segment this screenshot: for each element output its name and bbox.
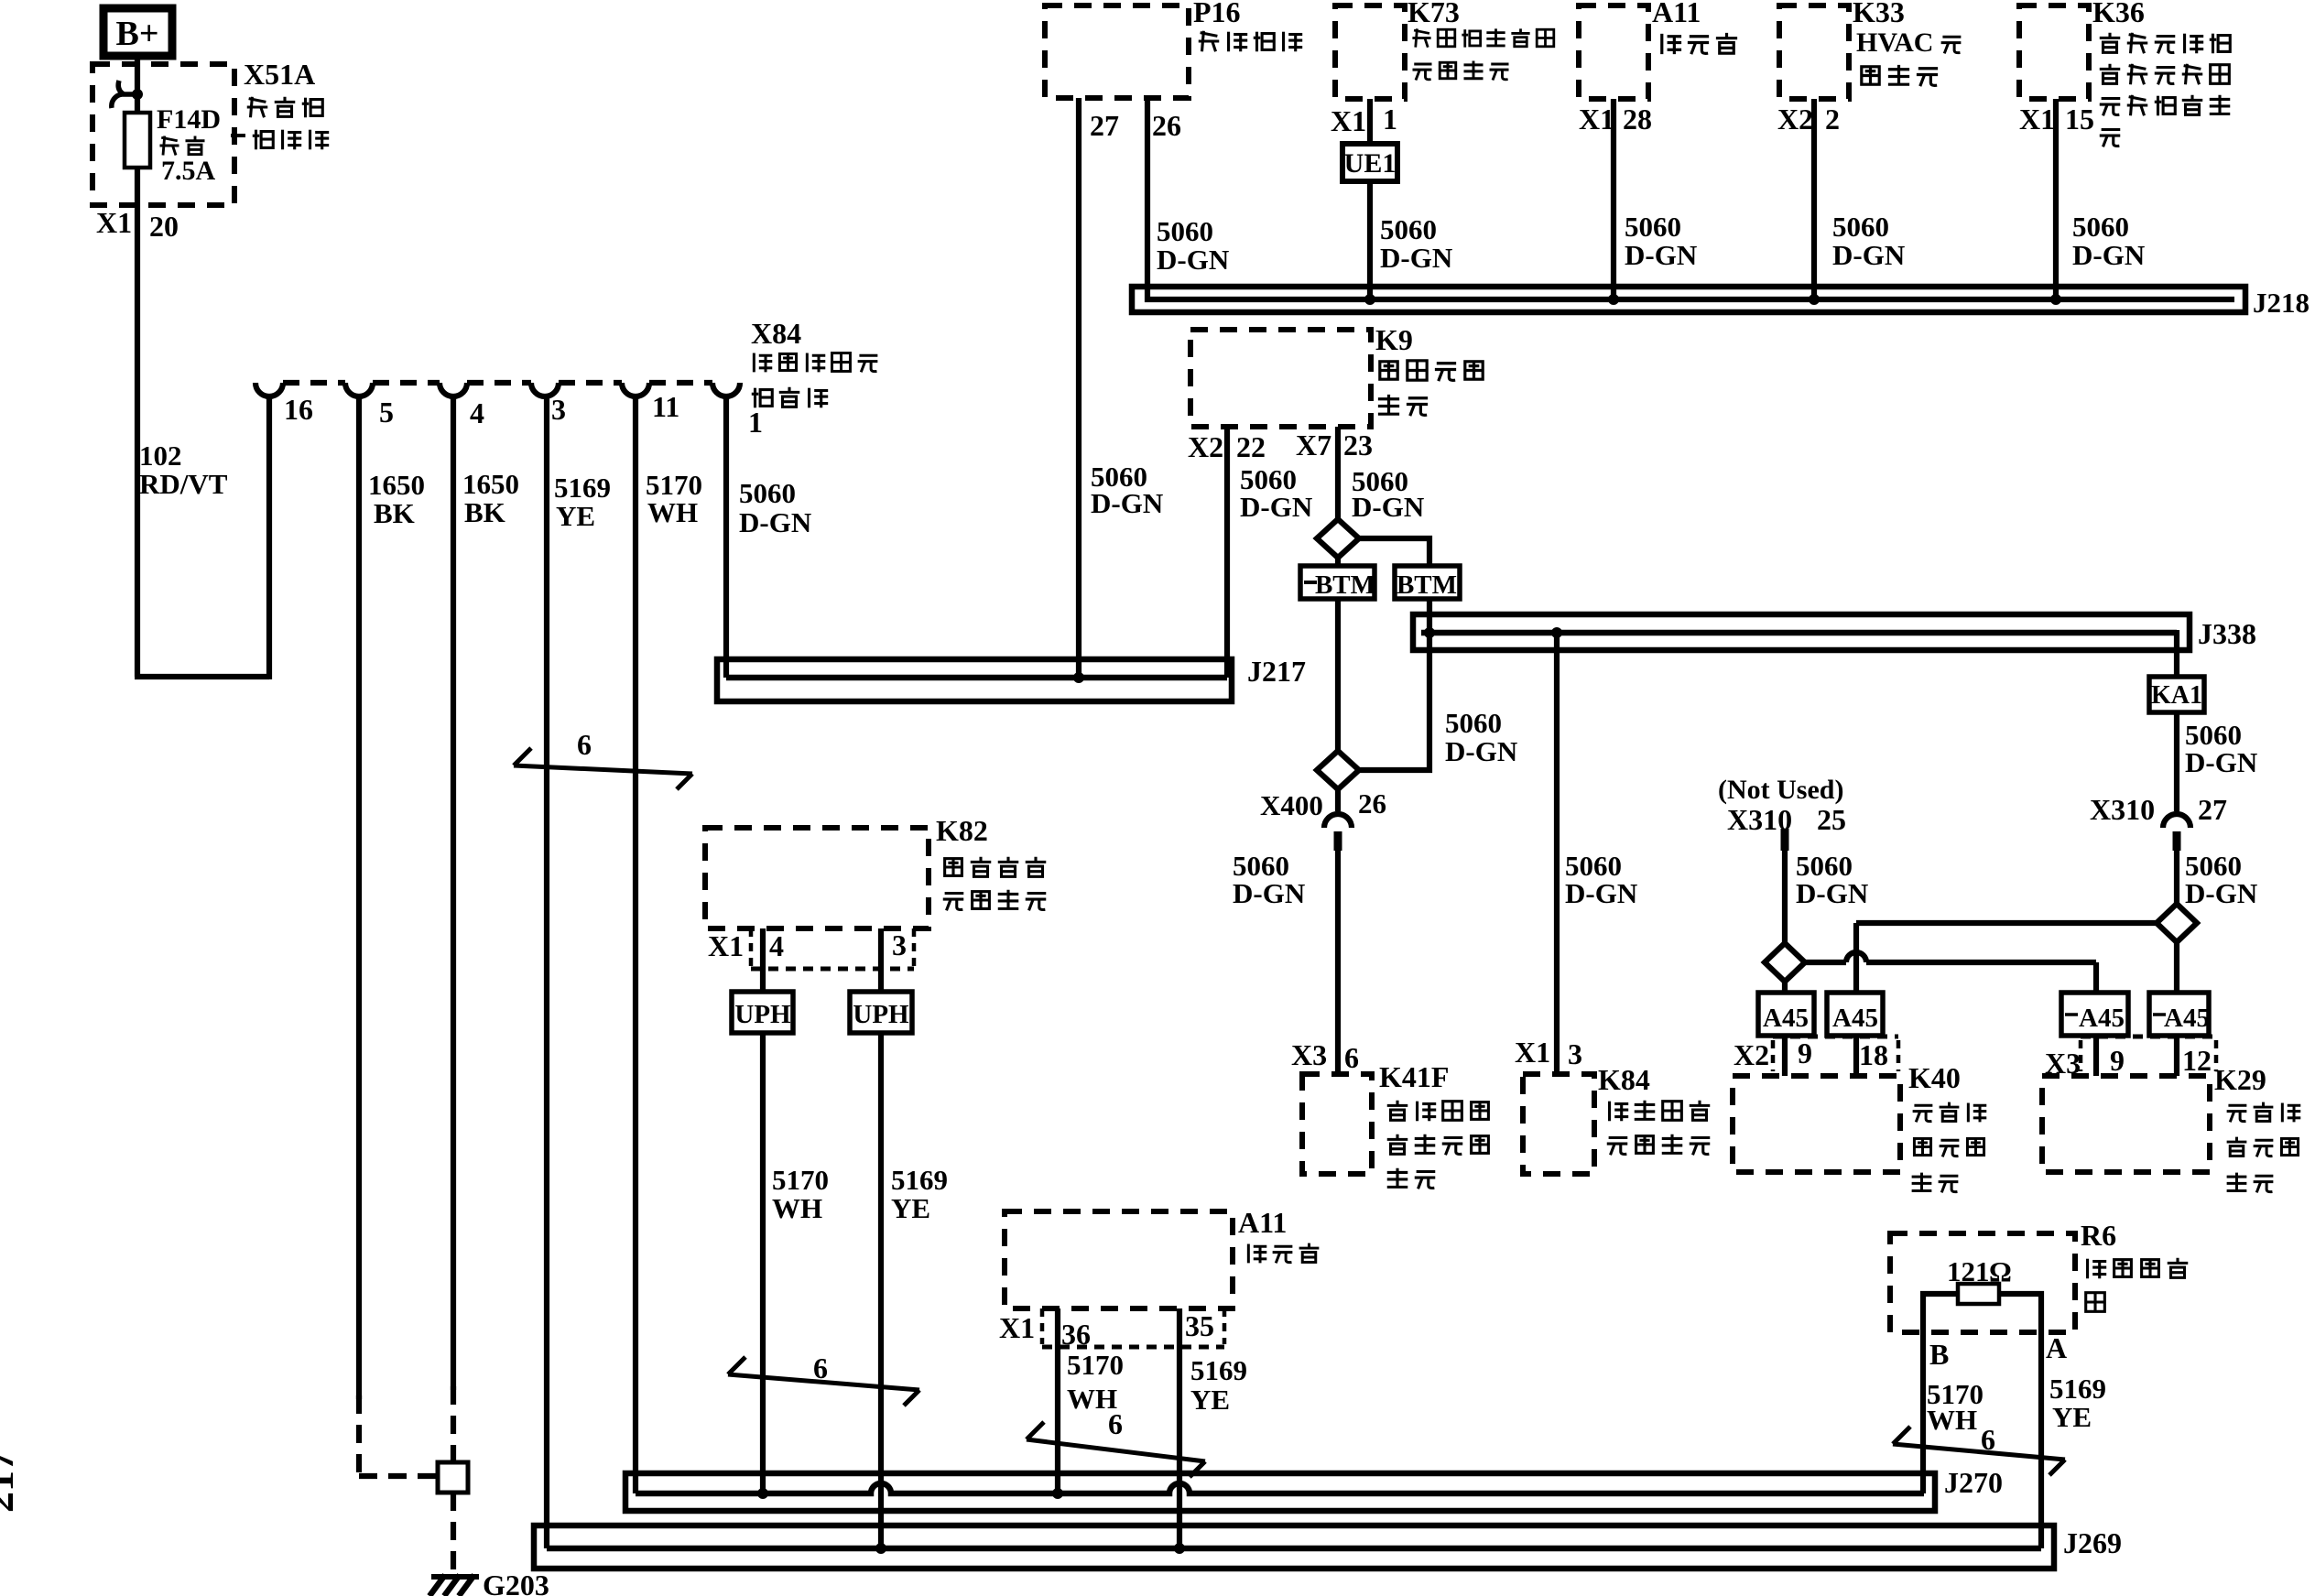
svg-text:YE: YE xyxy=(2052,1401,2092,1433)
module A11 radio dashed box (bottom) xyxy=(1005,1211,1233,1308)
power symbol B+ xyxy=(103,8,172,56)
svg-text:YE: YE xyxy=(1190,1384,1230,1416)
module K9 BCM dashed box xyxy=(1190,330,1371,427)
svg-text:D-GN: D-GN xyxy=(2185,746,2257,778)
module K73 dashed box xyxy=(1335,5,1405,99)
svg-text:5169: 5169 xyxy=(554,472,611,504)
wire J338 right end to KA1 xyxy=(2174,630,2179,677)
svg-text:WH: WH xyxy=(772,1192,822,1224)
svg-text:5: 5 xyxy=(379,396,394,429)
wire UPH1 to J270 xyxy=(760,1033,766,1493)
K82 pin4 wire xyxy=(760,928,766,992)
svg-text:D-GN: D-GN xyxy=(1796,877,1868,909)
svg-text:J218: J218 xyxy=(2253,287,2310,319)
svg-text:B+: B+ xyxy=(116,15,159,53)
wire B+ to fuse xyxy=(135,52,140,116)
svg-text:3: 3 xyxy=(1568,1037,1582,1070)
wire X310 to D3 xyxy=(2174,851,2179,904)
wire J338 to K84 xyxy=(1554,633,1560,1074)
svg-text:217: 217 xyxy=(0,1449,22,1513)
svg-text:5060: 5060 xyxy=(1445,707,1502,739)
bus J217 xyxy=(717,659,1232,701)
svg-text:22: 22 xyxy=(1236,430,1266,463)
wire 5060 D-GN pin1 to J217 xyxy=(723,396,729,678)
splice UE1 xyxy=(1342,144,1397,181)
svg-text:6: 6 xyxy=(813,1352,828,1384)
wire corner to X84 pin16 xyxy=(135,674,269,679)
wire stub to D4 xyxy=(1782,851,1788,943)
connector X84 dashed row xyxy=(283,380,345,385)
K36 pin X1 15 wire to J218 xyxy=(2053,99,2059,299)
svg-text:5060: 5060 xyxy=(739,477,796,509)
svg-text:RD/VT: RD/VT xyxy=(139,468,228,500)
svg-text:X1: X1 xyxy=(2019,103,2055,136)
wire J338 down to D2 right xyxy=(1359,635,1429,770)
module K29 dashed box xyxy=(2042,1076,2210,1172)
svg-text:J338: J338 xyxy=(2198,617,2256,650)
svg-text:UE1: UE1 xyxy=(1344,148,1397,179)
svg-text:5060: 5060 xyxy=(2072,211,2129,243)
svg-text:K84: K84 xyxy=(1598,1063,1650,1096)
svg-text:BTM: BTM xyxy=(1315,570,1375,600)
module K84 dashed box xyxy=(1523,1074,1594,1174)
svg-text:X84: X84 xyxy=(751,317,801,350)
svg-text:9: 9 xyxy=(1798,1037,1812,1069)
connector X310 27 xyxy=(2163,814,2190,828)
wire -BTM down to D2 xyxy=(1335,599,1341,751)
A11 pin35 wire to J269 xyxy=(1177,1308,1182,1548)
junction diamond D4 xyxy=(1765,943,1805,982)
junction diamond D2 xyxy=(1317,751,1359,789)
K33 pin X2 2 wire to J218 xyxy=(1811,99,1817,299)
junction diamond D3 xyxy=(2157,904,2197,942)
svg-text:X310: X310 xyxy=(2090,793,2155,826)
svg-text:X1: X1 xyxy=(708,929,744,962)
svg-text:UPH: UPH xyxy=(734,1000,791,1029)
svg-text:20: 20 xyxy=(149,210,179,243)
svg-text:27: 27 xyxy=(1090,109,1119,142)
module K82 dashed box xyxy=(705,828,929,928)
splice A45 #1 xyxy=(1758,993,1814,1036)
svg-text:A45: A45 xyxy=(1832,1004,1878,1033)
dashed wire to ground xyxy=(451,1493,456,1576)
wire D3 to -A45#2 xyxy=(2174,942,2179,993)
P16 pin 26 wire to J218 xyxy=(1147,98,2234,299)
riser corner to A45#2 xyxy=(1853,923,1859,993)
svg-text:18: 18 xyxy=(1859,1038,1888,1071)
K73 pin X1 1 wire xyxy=(1367,99,1373,144)
svg-text:A45: A45 xyxy=(2079,1004,2125,1033)
svg-text:26: 26 xyxy=(1358,787,1386,820)
wire 1650 BK pin5 xyxy=(356,396,362,1399)
svg-text:5060: 5060 xyxy=(1832,211,1889,243)
wire X400 to K41F xyxy=(1335,851,1341,1074)
svg-text:UPH: UPH xyxy=(853,1000,909,1029)
svg-text:D-GN: D-GN xyxy=(1157,244,1229,276)
svg-text:25: 25 xyxy=(1817,803,1846,836)
twisted-pair slash 6 (R6) xyxy=(1893,1444,2065,1460)
svg-text:BTM: BTM xyxy=(1397,570,1457,600)
svg-text:102: 102 xyxy=(139,440,182,472)
svg-text:J217: J217 xyxy=(1247,655,1306,688)
bus J218 xyxy=(1132,287,2245,312)
svg-text:5169: 5169 xyxy=(2049,1373,2106,1405)
X84 pin cups xyxy=(255,383,283,396)
svg-text:A11: A11 xyxy=(1652,0,1701,28)
splice -A45 #1 xyxy=(2061,993,2128,1036)
svg-text:X1: X1 xyxy=(1331,104,1366,137)
A11 pin36 wire to J270 xyxy=(1055,1308,1060,1493)
svg-text:5169: 5169 xyxy=(891,1164,948,1196)
fuse F14D 7.5A xyxy=(125,113,150,168)
svg-text:A: A xyxy=(2046,1331,2067,1364)
wire UE1 to J218 xyxy=(1367,181,1373,299)
wire D3 left to A45#2 riser xyxy=(1856,920,2157,926)
splice -BTM xyxy=(1300,566,1375,599)
svg-text:12: 12 xyxy=(2182,1044,2212,1077)
svg-text:D-GN: D-GN xyxy=(1832,239,1905,271)
svg-text:X1: X1 xyxy=(96,206,132,239)
svg-text:1: 1 xyxy=(748,406,763,439)
svg-text:7.5A: 7.5A xyxy=(161,156,216,186)
svg-text:3: 3 xyxy=(551,393,566,426)
svg-text:K36: K36 xyxy=(2092,0,2145,28)
svg-text:YE: YE xyxy=(556,500,595,532)
svg-text:K73: K73 xyxy=(1407,0,1460,28)
svg-text:15: 15 xyxy=(2065,103,2094,136)
wire fuse to corner xyxy=(135,168,140,677)
svg-text:6: 6 xyxy=(1981,1423,1995,1456)
svg-text:HVAC: HVAC xyxy=(1856,27,1933,58)
svg-text:6: 6 xyxy=(1108,1407,1123,1440)
module R6 dashed box xyxy=(1890,1233,2075,1332)
svg-text:D-GN: D-GN xyxy=(2185,877,2257,909)
svg-text:D-GN: D-GN xyxy=(1565,877,1637,909)
bus J338 xyxy=(1413,614,2190,650)
svg-text:5169: 5169 xyxy=(1190,1354,1247,1386)
twisted-pair slash 6 (left) xyxy=(514,765,692,774)
svg-text:P16: P16 xyxy=(1193,0,1241,28)
svg-text:26: 26 xyxy=(1152,109,1181,142)
svg-text:4: 4 xyxy=(769,929,784,962)
svg-text:J270: J270 xyxy=(1944,1466,2003,1499)
svg-text:D-GN: D-GN xyxy=(1240,491,1312,523)
svg-text:D-GN: D-GN xyxy=(1233,877,1305,909)
module K40 dashed box xyxy=(1733,1076,1900,1172)
svg-text:5170: 5170 xyxy=(1067,1349,1124,1381)
svg-text:11: 11 xyxy=(652,390,679,423)
wire 5169 YE pin3 xyxy=(544,396,549,1548)
twisted-pair slash 6 (UPH) xyxy=(728,1374,919,1390)
svg-text:K29: K29 xyxy=(2214,1063,2266,1096)
splice UPH #2 xyxy=(850,992,912,1033)
svg-text:5170: 5170 xyxy=(772,1164,829,1196)
svg-text:9: 9 xyxy=(2110,1044,2125,1077)
module A11 radio dashed box xyxy=(1579,5,1648,99)
module P16 组合仪表 dashed box xyxy=(1045,5,1189,98)
svg-text:5060: 5060 xyxy=(1625,211,1681,243)
svg-text:R6: R6 xyxy=(2081,1219,2116,1252)
svg-text:G203: G203 xyxy=(483,1569,549,1596)
module K41F dashed box xyxy=(1302,1074,1372,1174)
wire D1 right to BTM xyxy=(1359,538,1429,566)
svg-text:X1: X1 xyxy=(999,1311,1035,1344)
svg-text:F14D: F14D xyxy=(157,104,221,135)
svg-text:1650: 1650 xyxy=(368,469,425,501)
wire D4 right to -A45#1 with hop xyxy=(1805,960,1846,965)
svg-text:6: 6 xyxy=(1344,1041,1359,1074)
A11 pin X1 28 wire to J218 xyxy=(1611,99,1616,299)
wire KA1 to X310 xyxy=(2174,712,2179,811)
R6 B wire to J270 xyxy=(1923,1294,1958,1493)
svg-text:D-GN: D-GN xyxy=(1380,242,1452,274)
svg-text:X2: X2 xyxy=(1777,103,1813,136)
svg-text:X2: X2 xyxy=(1188,430,1223,463)
bus J269 xyxy=(534,1525,2054,1569)
wire 5170 WH pin11 xyxy=(633,396,638,1493)
svg-text:K41F: K41F xyxy=(1379,1060,1449,1093)
wire D1 to -BTM xyxy=(1335,558,1341,566)
svg-text:A45: A45 xyxy=(2164,1004,2210,1033)
twisted-pair slash 6 (A11) xyxy=(1027,1439,1205,1461)
svg-text:X400: X400 xyxy=(1260,789,1323,821)
P16 pin 27 wire to J217 xyxy=(1076,98,1081,678)
svg-text:X3: X3 xyxy=(1291,1038,1327,1071)
svg-text:B: B xyxy=(1929,1338,1949,1371)
splice UPH #1 xyxy=(732,992,793,1033)
svg-text:A45: A45 xyxy=(1763,1004,1809,1033)
svg-text:KA1: KA1 xyxy=(2151,681,2202,710)
splice square xyxy=(438,1462,468,1493)
K9 pin X7 23 wire xyxy=(1335,427,1341,521)
junction diamond D1 xyxy=(1317,519,1359,558)
svg-text:K9: K9 xyxy=(1375,323,1413,356)
wires A45 to K40 xyxy=(1782,1036,1788,1076)
svg-text:27: 27 xyxy=(2198,793,2227,826)
wire BTM to J338 center xyxy=(1427,599,1432,633)
svg-text:D-GN: D-GN xyxy=(1091,487,1163,519)
svg-text:D-GN: D-GN xyxy=(1445,735,1517,767)
bus J270 xyxy=(625,1473,1935,1511)
svg-text:K40: K40 xyxy=(1908,1061,1961,1094)
svg-text:WH: WH xyxy=(647,496,698,528)
svg-text:X1: X1 xyxy=(1579,103,1614,136)
R6 A wire to J269 xyxy=(1999,1294,2041,1548)
svg-text:K33: K33 xyxy=(1853,0,1905,28)
svg-text:D-GN: D-GN xyxy=(739,506,811,538)
splice BTM xyxy=(1395,566,1460,599)
svg-text:1: 1 xyxy=(1383,103,1397,136)
svg-text:X51A: X51A xyxy=(244,58,315,91)
svg-text:BK: BK xyxy=(374,497,415,529)
svg-text:D-GN: D-GN xyxy=(2072,239,2145,271)
svg-text:23: 23 xyxy=(1343,429,1373,461)
fusebox X51A dashed outline xyxy=(92,64,234,205)
splice A45 #2 xyxy=(1827,993,1883,1036)
svg-text:5060: 5060 xyxy=(1380,213,1437,245)
svg-text:5060: 5060 xyxy=(1157,215,1213,247)
wire D4 to A45#1 xyxy=(1782,982,1788,993)
svg-text:BK: BK xyxy=(464,496,505,528)
svg-text:X1: X1 xyxy=(1515,1036,1550,1069)
svg-text:X2: X2 xyxy=(1734,1038,1769,1071)
svg-text:WH: WH xyxy=(1927,1404,1977,1436)
splice -A45 #2 xyxy=(2149,993,2209,1036)
svg-text:28: 28 xyxy=(1623,103,1652,136)
module K36 airbag dashed box xyxy=(2019,5,2089,99)
svg-text:X7: X7 xyxy=(1296,429,1331,461)
svg-text:A11: A11 xyxy=(1238,1206,1287,1239)
svg-text:1650: 1650 xyxy=(462,468,519,500)
fuse clip hook xyxy=(112,94,137,108)
K82 pin3 wire xyxy=(878,928,884,992)
svg-text:6: 6 xyxy=(577,728,592,761)
ground symbol G203 xyxy=(431,1574,479,1580)
svg-text:16: 16 xyxy=(284,393,313,426)
svg-text:D-GN: D-GN xyxy=(1352,491,1424,523)
svg-text:35: 35 xyxy=(1185,1309,1214,1342)
K9 pin X2 22 wire to J217 xyxy=(1224,427,1230,678)
svg-text:4: 4 xyxy=(470,396,484,429)
svg-text:D-GN: D-GN xyxy=(1625,239,1697,271)
module K33 HVAC dashed box xyxy=(1779,5,1849,99)
svg-text:2: 2 xyxy=(1825,103,1840,136)
wire 1650 BK pin4 xyxy=(451,396,456,1390)
svg-text:YE: YE xyxy=(891,1192,930,1224)
connector X400 26 xyxy=(1335,789,1341,811)
svg-text:K82: K82 xyxy=(936,814,988,847)
splice KA1 xyxy=(2149,677,2204,712)
svg-text:3: 3 xyxy=(892,928,907,961)
wires -A45 to K29 xyxy=(2093,1036,2099,1076)
svg-text:(Not Used): (Not Used) xyxy=(1718,775,1843,805)
wire UPH2 to J269 xyxy=(878,1033,884,1548)
svg-text:J269: J269 xyxy=(2063,1526,2122,1559)
